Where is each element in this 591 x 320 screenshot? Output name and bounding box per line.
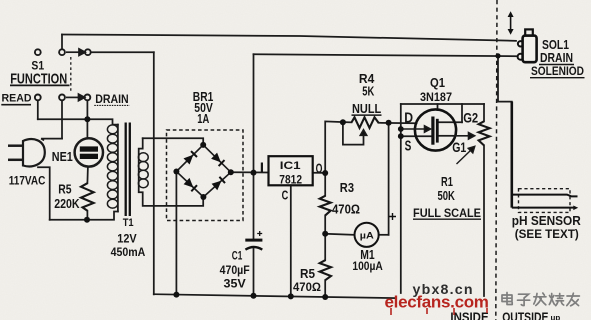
svg-text:up: up (551, 314, 561, 320)
svg-text:R3: R3 (340, 181, 354, 195)
svg-text:R5: R5 (300, 267, 315, 281)
svg-text:OUTSIDE: OUTSIDE (502, 310, 549, 320)
svg-text:NE1: NE1 (52, 149, 73, 164)
svg-text:NULL: NULL (352, 101, 381, 116)
svg-text:Q1: Q1 (430, 76, 445, 90)
svg-text:470Ω: 470Ω (332, 203, 360, 217)
svg-text:117VAC: 117VAC (9, 173, 46, 187)
svg-text:C1: C1 (232, 249, 243, 263)
svg-text:470µF: 470µF (220, 263, 250, 277)
svg-text:50K: 50K (438, 188, 456, 203)
svg-text:G2: G2 (463, 110, 478, 125)
svg-text:12V: 12V (117, 231, 137, 245)
svg-text:1A: 1A (197, 111, 209, 126)
svg-text:470Ω: 470Ω (293, 280, 321, 294)
svg-text:S: S (405, 138, 412, 154)
svg-text:220K: 220K (54, 197, 79, 211)
svg-text:D: D (404, 110, 413, 126)
svg-text:FULL SCALE: FULL SCALE (413, 206, 481, 220)
svg-text:7812: 7812 (279, 174, 302, 187)
svg-text:5K: 5K (362, 85, 374, 99)
svg-text:T1: T1 (123, 217, 134, 229)
svg-text:450mA: 450mA (111, 246, 146, 259)
svg-text:pH SENSOR: pH SENSOR (512, 213, 582, 228)
svg-text:R5: R5 (58, 183, 71, 197)
svg-text:elecfans.com: elecfans.com (385, 293, 489, 312)
svg-text:R1: R1 (441, 174, 453, 189)
svg-text:35V: 35V (224, 277, 246, 291)
svg-text:G1: G1 (452, 140, 466, 155)
svg-text:µA: µA (360, 230, 374, 241)
svg-text:SOLENIOD: SOLENIOD (531, 64, 584, 78)
svg-text:I: I (260, 159, 264, 175)
svg-text:DRAIN: DRAIN (540, 50, 573, 65)
svg-text:O: O (316, 160, 323, 176)
svg-text:C: C (282, 188, 289, 203)
svg-text:READ: READ (2, 93, 32, 105)
svg-text:(SEE TEXT): (SEE TEXT) (515, 227, 579, 241)
svg-text:DRAIN: DRAIN (95, 92, 129, 106)
svg-text:3N187: 3N187 (420, 90, 452, 104)
svg-text:100µA: 100µA (352, 261, 382, 273)
svg-text:IC1: IC1 (280, 160, 302, 172)
